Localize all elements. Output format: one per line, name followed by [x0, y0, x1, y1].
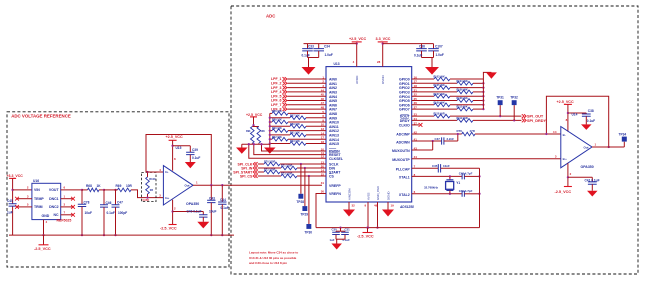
ground for C33 C34: [308, 57, 319, 59]
svg-text:32: 32: [352, 204, 356, 208]
svg-text:3.3_VCC: 3.3_VCC: [376, 37, 391, 41]
crystal Y1 32.768kHz: [449, 176, 451, 179]
svg-text:0.1uF: 0.1uF: [221, 206, 229, 210]
resistor R71 100R on SPI_IN: [258, 167, 281, 169]
wire CLKSEL to divider ground node: [249, 144, 326, 158]
ground arrow under bias bus: [264, 148, 276, 154]
svg-text:R109 49K: R109 49K: [434, 101, 445, 104]
resistor R104 49K pull on GPIO1: [412, 82, 457, 84]
svg-text:R86 10K: R86 10K: [272, 110, 282, 113]
svg-text:R73 100R: R73 100R: [281, 173, 292, 176]
svg-text:R119 49R: R119 49R: [457, 117, 468, 120]
svg-text:10uF: 10uF: [85, 211, 92, 215]
svg-text:1.0uF: 1.0uF: [325, 53, 333, 57]
svg-text:VOUT: VOUT: [49, 188, 60, 192]
svg-text:R108 49K: R108 49K: [457, 97, 468, 100]
svg-text:4: 4: [353, 60, 355, 64]
svg-text:Y1: Y1: [456, 181, 460, 185]
U16 pin 5 TRIM with no-connect: [17, 206, 32, 208]
svg-text:PLLCAP: PLLCAP: [396, 168, 411, 172]
svg-text:DNC2: DNC2: [49, 205, 59, 209]
resistor R89 10K to AIN11: [270, 125, 290, 127]
svg-text:TRIM: TRIM: [34, 205, 43, 209]
capacitor C41 0.1uF on U14 V-: [568, 176, 592, 178]
capacitor C38 0.1uF on U14 V+: [568, 112, 586, 114]
svg-text:31: 31: [321, 181, 325, 185]
svg-text:8: 8: [174, 157, 176, 161]
resistor R70 100R on SPI_CLK: [258, 163, 264, 165]
svg-text:R70 100R: R70 100R: [264, 161, 275, 164]
svg-text:47R: 47R: [470, 129, 476, 133]
svg-text:TP30: TP30: [304, 230, 312, 234]
svg-text:U15: U15: [176, 146, 182, 150]
svg-text:R104 49K: R104 49K: [457, 80, 468, 83]
svg-text:10R: 10R: [126, 184, 133, 188]
resistor R107 49K pull on GPIO4: [412, 95, 434, 97]
svg-text:R68: R68: [86, 184, 92, 188]
resistor R108 49K pull on GPIO5: [412, 100, 457, 102]
resistor R119 49R on DRDY: [412, 119, 457, 121]
ground for C41: [587, 191, 598, 197]
op-amp U15 OPA350 triangle: [163, 166, 193, 205]
svg-text:NC: NC: [54, 213, 60, 217]
svg-text:2.2nF: 2.2nF: [447, 137, 455, 141]
capacitor C40 0.1uF on U15 V-: [173, 211, 204, 213]
svg-text:In-: In-: [165, 170, 169, 174]
svg-text:+3.3_VCC: +3.3_VCC: [7, 174, 24, 178]
svg-text:1: 1: [595, 143, 597, 147]
svg-text:ADCINP: ADCINP: [396, 133, 410, 137]
power -2.5_VCC for U14: [564, 186, 572, 188]
svg-text:C36: C36: [419, 45, 425, 49]
op-amp U14 OPA350 triangle: [561, 127, 592, 168]
svg-text:+2.5_VCC: +2.5_VCC: [246, 113, 263, 117]
resistor R118 49R on DOUT: [412, 115, 434, 117]
ground arrow left of divider: [236, 148, 248, 154]
svg-text:MUXOUTN: MUXOUTN: [392, 149, 410, 153]
svg-text:C43: C43: [209, 196, 215, 200]
wire ADCINP to U14 In-: [475, 133, 561, 135]
capacitor C36 0.1uF: [421, 44, 423, 49]
resistor R94 10K divider: [257, 127, 261, 144]
svg-text:32.768kHz: 32.768kHz: [424, 185, 439, 189]
wire U14 output: [592, 146, 624, 148]
capacitor C46 0.1uF: [103, 189, 105, 191]
svg-text:OPA350: OPA350: [581, 165, 594, 169]
resistor R93 10K divider: [252, 126, 258, 128]
svg-text:6: 6: [64, 186, 66, 190]
svg-text:C39: C39: [192, 148, 198, 152]
svg-text:C37: C37: [435, 137, 441, 141]
svg-text:R93: R93: [246, 130, 251, 133]
ground for C38: [581, 124, 592, 129]
svg-text:ADC VOLTAGE REFERENCE: ADC VOLTAGE REFERENCE: [11, 113, 71, 118]
svg-text:C35: C35: [432, 164, 438, 168]
svg-text:TP32: TP32: [510, 96, 518, 100]
power -2.5_VCC for U15: [169, 224, 177, 226]
svg-text:GND_PAD: GND_PAD: [376, 186, 380, 200]
svg-text:+2.5_VCC: +2.5_VCC: [349, 37, 366, 41]
resistor R73 100R on SPI_CS: [258, 175, 281, 177]
svg-text:CS: CS: [329, 175, 335, 179]
svg-text:3: 3: [159, 194, 161, 198]
svg-text:8: 8: [566, 118, 568, 122]
svg-text:R93 10K: R93 10K: [290, 140, 300, 143]
svg-text:3: 3: [27, 194, 29, 198]
svg-text:U14: U14: [572, 112, 578, 116]
svg-text:C34: C34: [324, 45, 330, 49]
U16 DNC1 pin 1 no-connect: [61, 198, 73, 200]
svg-text:SPI_OUT: SPI_OUT: [527, 114, 544, 118]
svg-text:100pF: 100pF: [118, 211, 127, 215]
svg-text:SPI_DRDY: SPI_DRDY: [527, 119, 546, 123]
resistor R72 100R on SPI_START: [258, 171, 264, 173]
svg-text:R103 49K: R103 49K: [434, 76, 445, 79]
IC U13 ADS1258 body: [326, 67, 412, 202]
svg-text:U16: U16: [33, 179, 39, 183]
wire RESET to divider ground node: [254, 144, 326, 154]
svg-text:C46: C46: [106, 201, 112, 205]
svg-text:1: 1: [64, 194, 66, 198]
svg-text:C49 4.7pF: C49 4.7pF: [459, 189, 473, 193]
svg-text:CLKSEL: CLKSEL: [329, 157, 344, 161]
resistor R109 49K pull on GPIO6: [412, 104, 434, 106]
svg-text:C41 0.1uF: C41 0.1uF: [585, 178, 600, 182]
capacitor C39 0.1uF on U15 V+: [173, 145, 191, 147]
svg-text:XTAL2: XTAL2: [399, 193, 410, 197]
test point TP31 on DOUT: [499, 115, 501, 117]
resistor R92 10K to AIN14: [272, 137, 288, 141]
resistor R110 49K pull on GPIO7: [412, 108, 457, 110]
net SPI_OUT output port: [522, 114, 526, 118]
svg-text:19: 19: [391, 204, 395, 208]
feedback wire U15: [146, 135, 211, 186]
resistor R105 49K pull on GPIO2: [412, 87, 434, 89]
svg-text:R89 10K: R89 10K: [290, 123, 300, 126]
svg-text:1uF: 1uF: [7, 211, 13, 215]
test point TP34 on output: [622, 137, 627, 142]
capacitor C30 1uF on AVSS rail: [339, 226, 341, 228]
svg-text:0.1uF: 0.1uF: [414, 54, 422, 58]
resistor R106 49K pull on GPIO3: [412, 91, 457, 93]
svg-text:3: 3: [64, 203, 66, 207]
svg-text:TP29: TP29: [300, 213, 308, 217]
capacitor C43 10uF on reference output: [210, 185, 212, 200]
svg-text:1.0uF: 1.0uF: [436, 53, 444, 57]
svg-text:10uF: 10uF: [209, 210, 216, 214]
svg-text:CLKIO: CLKIO: [399, 124, 410, 128]
U14 V- wire: [567, 163, 569, 186]
power -2.5_VCC on AVSS rail: [366, 226, 368, 228]
ground rail of reference section: [9, 234, 234, 236]
svg-text:U13 31 & U13 30 pins as possib: U13 31 & U13 30 pins as possible: [249, 256, 297, 260]
svg-text:MUXOUTP: MUXOUTP: [392, 158, 410, 162]
svg-text:9: 9: [365, 204, 367, 208]
svg-text:GPIO7: GPIO7: [399, 108, 410, 112]
svg-text:R107 49K: R107 49K: [434, 93, 445, 96]
resistor R76 47R on ADCINP: [412, 133, 462, 135]
U13 AVDD pin: [356, 44, 358, 67]
test point TP30 on CS: [308, 175, 310, 177]
capacitor C35 10nF on PLLCAP: [412, 167, 439, 169]
svg-text:AVDD: AVDD: [355, 75, 359, 84]
svg-text:28: 28: [377, 60, 381, 64]
U15 V- wire: [172, 200, 174, 225]
svg-text:R87 10K: R87 10K: [290, 114, 300, 117]
svg-text:1: 1: [196, 181, 198, 185]
svg-text:C45: C45: [7, 199, 13, 203]
svg-text:10nF: 10nF: [443, 164, 450, 168]
U16 pin 3 TEMP with no-connect: [17, 198, 32, 200]
svg-text:AVSS: AVSS: [366, 192, 370, 200]
test point TP28 on SCLK: [300, 163, 302, 165]
svg-text:49: 49: [374, 204, 378, 208]
IC U16 REF5025 voltage reference: [32, 183, 61, 219]
svg-text:0.05R: 0.05R: [143, 199, 150, 202]
svg-text:VREFN: VREFN: [329, 192, 341, 196]
capacitor C49 4.7pF on XTAL2: [412, 193, 462, 195]
svg-text:DRDY: DRDY: [400, 119, 411, 123]
svg-text:R105 49K: R105 49K: [434, 84, 445, 87]
svg-text:7: 7: [64, 211, 66, 215]
wire PWDN to divider ground node: [262, 144, 327, 151]
svg-text:TP31: TP31: [496, 96, 504, 100]
svg-text:R88 10K: R88 10K: [272, 119, 282, 122]
svg-text:3: 3: [555, 155, 557, 159]
svg-text:0.1uF: 0.1uF: [587, 119, 595, 123]
svg-text:0R: 0R: [150, 188, 153, 192]
svg-text:In+: In+: [563, 157, 568, 161]
svg-text:-2.5_VCC: -2.5_VCC: [357, 235, 374, 239]
svg-text:Layout note: Move C34 as close: Layout note: Move C34 as close to: [249, 251, 298, 255]
test point TP29 on DIN: [304, 167, 306, 169]
svg-text:Out: Out: [185, 183, 190, 187]
svg-text:and C33 close to U13 8 pin: and C33 close to U13 8 pin: [249, 261, 287, 265]
bias bus for AIN8-AIN15: [269, 113, 271, 145]
svg-text:-2.5_VCC: -2.5_VCC: [555, 190, 572, 194]
capacitor C34 1.0uF: [318, 44, 320, 49]
capacitor C33 0.1uF: [307, 44, 309, 49]
svg-text:C78: C78: [84, 200, 90, 204]
svg-text:REF5025: REF5025: [57, 219, 72, 223]
svg-text:TP28: TP28: [296, 200, 304, 204]
svg-text:30: 30: [321, 189, 325, 193]
svg-text:R90 10K: R90 10K: [272, 127, 282, 130]
wire PLL XTAL bus down to AVSS rail: [479, 168, 481, 227]
svg-text:R92 10K: R92 10K: [272, 136, 282, 139]
dashed box: ADC section: [231, 6, 638, 274]
divider bottom wire: [242, 143, 270, 145]
svg-text:+2.5_VCC: +2.5_VCC: [557, 100, 574, 104]
svg-text:VREFP: VREFP: [329, 184, 341, 188]
wire feedback to In-: [146, 171, 163, 173]
svg-text:C40 0.1uF: C40 0.1uF: [187, 210, 202, 214]
resistor R93 10K to AIN15: [270, 143, 290, 145]
svg-text:C47: C47: [117, 200, 123, 204]
wire VIN: [13, 189, 32, 191]
svg-text:R71 100R: R71 100R: [281, 165, 292, 168]
svg-text:C38: C38: [588, 109, 594, 113]
GPIO pull bus to ground: [483, 72, 491, 109]
svg-text:-2.5_VCC: -2.5_VCC: [34, 247, 51, 251]
resistor R87 10K to AIN9: [270, 117, 290, 119]
svg-text:Out: Out: [584, 145, 589, 149]
svg-text:VIN: VIN: [34, 188, 40, 192]
svg-text:2: 2: [174, 206, 176, 210]
power -2.5_VCC below rail: [43, 235, 45, 245]
wire +3.3_VCC down to VIN and bypass cap: [12, 178, 14, 203]
svg-text:2: 2: [27, 186, 29, 190]
wire DVDD to bypass caps: [383, 43, 434, 45]
capacitor C47 100pF: [114, 189, 116, 191]
svg-text:TP34: TP34: [619, 132, 627, 136]
U16 NC pin 7 no-connect: [61, 214, 73, 216]
svg-text:TEMP: TEMP: [34, 197, 44, 201]
svg-text:4: 4: [159, 168, 161, 172]
capacitor C37 2.2nF between ADCINP and ADCINN: [442, 137, 444, 144]
svg-text:5: 5: [27, 203, 29, 207]
trim resistor R100 inside dashed box: [147, 172, 149, 177]
svg-text:R110 49K: R110 49K: [457, 106, 468, 109]
svg-text:0.1uF: 0.1uF: [107, 211, 115, 215]
svg-text:U13: U13: [334, 62, 340, 66]
ground for C36 C107: [422, 57, 434, 59]
svg-text:C48 4.7pF: C48 4.7pF: [459, 171, 473, 175]
capacitor C45 0.1uF on VIN: [9, 204, 17, 206]
dashed box: ADC VOLTAGE REFERENCE section: [7, 112, 229, 267]
svg-text:0.1uF: 0.1uF: [343, 238, 351, 242]
svg-text:R118 49R: R118 49R: [434, 113, 445, 116]
capacitor C48 4.7pF on XTAL1: [412, 175, 462, 177]
trimmer dashed box: [141, 172, 156, 201]
resistor R86 10K to AIN8: [272, 112, 288, 116]
capacitor C107 1.0uF: [433, 44, 435, 49]
svg-text:1uF: 1uF: [330, 238, 335, 242]
ground for C40: [197, 222, 209, 229]
svg-text:GND: GND: [42, 214, 50, 218]
resistor R88 10K to AIN10: [272, 120, 288, 124]
svg-text:In-: In-: [563, 133, 567, 137]
wire R69 to opamp In+: [131, 190, 163, 198]
resistor R90 10K to AIN12: [272, 129, 288, 133]
svg-text:2: 2: [570, 172, 572, 176]
capacitor C78 10uF on VOUT: [81, 189, 83, 191]
svg-text:In+: In+: [165, 196, 170, 200]
svg-text:AINCOM: AINCOM: [347, 188, 351, 200]
svg-text:R106 49K: R106 49K: [457, 89, 468, 92]
svg-text:DVDD: DVDD: [381, 74, 385, 84]
ground for C39: [185, 162, 196, 168]
svg-text:R69: R69: [116, 184, 122, 188]
svg-text:C31: C31: [345, 228, 351, 232]
svg-text:+2.5_VCC: +2.5_VCC: [166, 135, 183, 139]
resistor R69 10R: [104, 189, 118, 191]
svg-text:0.1uF: 0.1uF: [192, 156, 200, 160]
wire U15 output to VREFP: [193, 184, 322, 186]
capacitor C44 0.1uF on reference output: [221, 185, 223, 202]
resistor R68 1K: [82, 189, 88, 191]
svg-text:C30: C30: [332, 228, 338, 232]
svg-text:R91 10K: R91 10K: [290, 132, 300, 135]
U13 DVDD pin: [382, 44, 384, 67]
svg-text:ADS1258: ADS1258: [399, 205, 414, 209]
test point TP32 on DRDY: [513, 119, 515, 121]
U16 GND pin 4 wire down to rail: [43, 220, 45, 236]
U16 DNC2 pin 3 no-connect: [61, 206, 73, 208]
ground arrow for GPIO pulls: [486, 72, 497, 78]
feedback wire U14: [546, 96, 608, 147]
svg-text:DNC1: DNC1: [49, 197, 59, 201]
svg-text:XTAL1: XTAL1: [399, 176, 410, 180]
ground under C30 C31: [331, 244, 342, 250]
svg-text:10K: 10K: [261, 130, 266, 133]
svg-text:R76: R76: [457, 129, 463, 133]
svg-text:SPI_CS: SPI_CS: [240, 174, 253, 178]
svg-text:ADC: ADC: [266, 14, 275, 19]
svg-text:1K: 1K: [97, 184, 102, 188]
svg-text:R72 100R: R72 100R: [264, 169, 275, 172]
svg-text:C44: C44: [220, 198, 226, 202]
svg-text:OPA350: OPA350: [186, 202, 199, 206]
svg-text:AIN15: AIN15: [329, 142, 339, 146]
svg-text:C33: C33: [308, 45, 314, 49]
svg-text:ADCINN: ADCINN: [396, 140, 410, 144]
resistor R103 49K pull on GPIO0: [412, 78, 434, 80]
svg-text:-2.5_VCC: -2.5_VCC: [160, 226, 177, 230]
svg-text:4: 4: [46, 220, 48, 224]
AVSS rail wire: [316, 227, 480, 229]
svg-text:C107: C107: [435, 45, 443, 49]
net SPI_DRDY output port: [522, 119, 526, 123]
wire AVDD to bypass caps: [304, 43, 357, 45]
svg-text:R100: R100: [149, 177, 156, 181]
resistor R91 10K to AIN13: [270, 134, 290, 136]
svg-text:DGND: DGND: [386, 191, 390, 200]
